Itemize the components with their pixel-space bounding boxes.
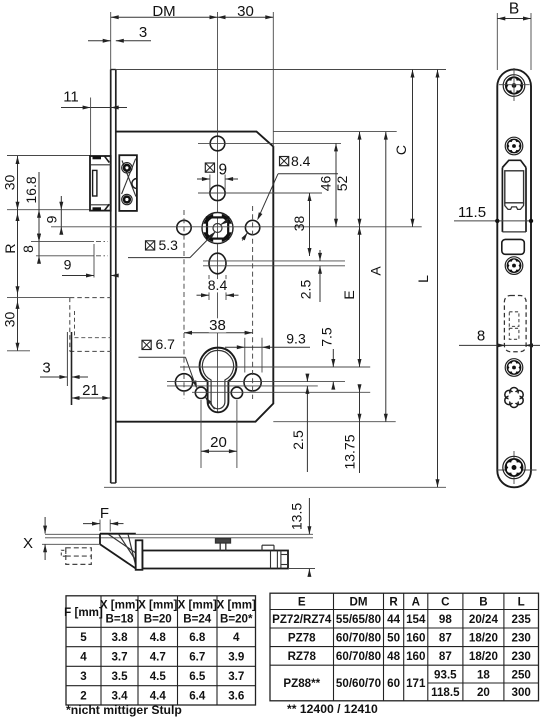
dimension 7.5 (332, 349, 334, 367)
svg-text:3.4: 3.4 (111, 690, 128, 703)
svg-text:6.8: 6.8 (189, 631, 206, 644)
svg-text:8: 8 (477, 328, 485, 345)
svg-text:L: L (518, 596, 525, 609)
svg-text:235: 235 (512, 613, 532, 626)
svg-text:A: A (412, 596, 421, 609)
svg-text:X [mm]: X [mm] (138, 599, 177, 612)
svg-text:L: L (415, 275, 431, 283)
small hole 6.7 right (231, 387, 242, 398)
dimension B (496, 13, 498, 70)
svg-text:3.5: 3.5 (111, 670, 128, 683)
svg-text:*nicht mittiger Stulp: *nicht mittiger Stulp (66, 703, 182, 717)
left dimension 9 (latch bottom to follower axis) (60, 196, 62, 235)
svg-text:5.3: 5.3 (159, 237, 179, 253)
dimension 3 faceplate thickness top (88, 40, 111, 42)
follower spindle T on case (216, 539, 231, 543)
svg-text:6.4: 6.4 (189, 690, 206, 703)
svg-text:E: E (341, 290, 357, 299)
latch bolt top bevel bump (502, 160, 526, 167)
dimension 13.75 (359, 386, 361, 392)
bottom screw torx (503, 456, 525, 478)
dimension 8.4 oval width (208, 275, 210, 300)
upper hole 9mm (210, 185, 225, 200)
case bottom extension for 13.5 (288, 568, 315, 570)
left dimension 8 (38, 242, 40, 263)
svg-text:B: B (509, 1, 519, 18)
svg-text:11.5: 11.5 (458, 204, 486, 221)
svg-text:171: 171 (406, 677, 426, 690)
centerline of 6.7 holes y=392.3 (192, 391, 370, 393)
dimension A (385, 132, 387, 422)
dimension C (412, 70, 414, 227)
extension line y=350.8 (7, 350, 30, 352)
svg-text:R: R (389, 596, 398, 609)
svg-text:3.7: 3.7 (111, 651, 127, 664)
svg-text:8.4: 8.4 (291, 153, 311, 169)
svg-text:87: 87 (439, 650, 452, 663)
label square-9 with dimension for upper hole (205, 163, 214, 172)
svg-text:F [mm]: F [mm] (64, 606, 103, 619)
extension line x=273.3 from 30-dim to case corner (272, 12, 274, 147)
small hole 6.7 left (195, 387, 206, 398)
lock case box (top view) (142, 551, 288, 569)
follower square 9mm (207, 217, 228, 238)
svg-text:4.7: 4.7 (150, 651, 166, 664)
vertical centerline through follower and cylinder (217, 12, 219, 412)
right view faceplate outline (stadium) (497, 69, 531, 487)
star-shaped hole outline (510, 388, 518, 396)
dimension 46 (335, 143, 337, 226)
second screw torx (505, 137, 523, 155)
svg-text:87: 87 (439, 632, 452, 645)
middle screw torx (505, 257, 523, 275)
svg-text:18/20: 18/20 (469, 632, 498, 645)
svg-text:13.5: 13.5 (289, 503, 305, 530)
svg-text:9: 9 (64, 257, 72, 273)
svg-text:C: C (441, 596, 450, 609)
side hole upper-left 8.4 (177, 220, 191, 234)
svg-text:B=20*: B=20* (220, 613, 253, 626)
dimension 9.3 diameter of lower side holes (225, 346, 310, 348)
top hole of lock case (210, 136, 225, 151)
svg-text:3.9: 3.9 (228, 651, 245, 664)
svg-text:20/24: 20/24 (469, 613, 499, 626)
svg-text:6.5: 6.5 (189, 670, 206, 683)
cylinder hole PZ profile outer (200, 348, 237, 413)
left table F/X values (66, 596, 256, 705)
centerline through upper hole (198, 192, 322, 194)
svg-text:21: 21 (82, 382, 99, 399)
svg-text:3: 3 (42, 360, 50, 377)
svg-text:20: 20 (477, 686, 490, 699)
latch opening in faceplate (long slot) (501, 168, 503, 232)
cylinder hole PZ profile inner (202, 350, 233, 408)
svg-text:93.5: 93.5 (434, 668, 457, 681)
bracket screw boss upper (122, 163, 132, 173)
follower (square spindle hub) ring (205, 215, 231, 241)
side hole lower-right 9.3 (244, 374, 261, 391)
svg-text:B: B (479, 596, 487, 609)
case bottom extension to A dimension (273, 421, 395, 423)
dimension X (44, 517, 46, 534)
svg-text:B=24: B=24 (183, 613, 212, 626)
svg-text:E: E (298, 596, 306, 609)
latch bolt head (Falle) (90, 156, 111, 211)
faceplate top extension line to L (116, 69, 446, 71)
svg-text:154: 154 (406, 613, 426, 626)
left dimension 16.8 (38, 172, 40, 242)
svg-text:3.8: 3.8 (111, 631, 128, 644)
svg-text:18: 18 (477, 668, 490, 681)
label square-5.3 with leader to follower center (146, 241, 155, 250)
faceplate (Stulp) front edge, 3mm thick (110, 70, 112, 484)
reference line pair 2.5 at lower side holes (167, 381, 345, 383)
faceplate bar cross-section (136, 540, 143, 570)
svg-text:18/20: 18/20 (469, 650, 498, 663)
dashed deadbolt thrown (top view) (66, 548, 92, 565)
svg-text:2.5: 2.5 (290, 430, 306, 450)
lock case outline with chamfered right corners (116, 132, 273, 422)
svg-text:B=20: B=20 (144, 613, 172, 626)
svg-text:3.7: 3.7 (228, 670, 244, 683)
svg-text:48: 48 (387, 650, 400, 663)
svg-text:9: 9 (218, 162, 227, 179)
extension line x=94 for 9-dim (93, 244, 95, 278)
dimension 30 top (218, 16, 274, 18)
svg-text:60: 60 (387, 677, 400, 690)
latch guide bracket inside case (119, 155, 137, 211)
extension line latch top y=155.5 (7, 155, 90, 157)
dimension L (437, 70, 439, 488)
lower oval hole 8.4 (209, 253, 226, 274)
dimension 38 vertical (309, 193, 311, 256)
dimension 20 between 6.7 holes (200, 400, 202, 468)
svg-text:4: 4 (80, 651, 87, 664)
small dashed slots (509, 312, 519, 327)
third screw torx (505, 359, 523, 377)
side hole upper-right 8.4 (245, 220, 259, 234)
svg-text:50/60/70: 50/60/70 (336, 677, 381, 690)
follower center hole 5.3 (213, 224, 222, 233)
follower centerline extension (51, 226, 422, 228)
latch bolt beveled bottom (505, 203, 524, 210)
cylinder housing bump on case top (261, 545, 263, 550)
svg-text:X [mm]: X [mm] (217, 599, 256, 612)
svg-text:13.75: 13.75 (342, 434, 358, 469)
latch bolt bevel wedge (top view) (100, 533, 136, 535)
hidden feature centerline y=255.8 (36, 255, 94, 257)
svg-text:6.7: 6.7 (189, 651, 205, 664)
svg-text:30: 30 (2, 312, 18, 328)
section reference line pair (45, 533, 313, 535)
dimension 9 horizontal (aux pin to faceplate) (62, 275, 94, 277)
svg-text:DM: DM (349, 596, 367, 609)
left dimension R (17, 210, 19, 298)
top screw torx (503, 75, 525, 97)
dimension F (99, 520, 101, 532)
case right end details (270, 551, 272, 569)
dimension E (359, 227, 361, 367)
label square-6.7 with leader to small holes (142, 340, 151, 349)
left dimension 30 upper (latch height) (17, 156, 19, 210)
dimension 11 latch protrusion (61, 107, 127, 109)
dimension 2.5 upper (319, 250, 321, 261)
svg-text:A: A (368, 266, 384, 276)
svg-text:3.6: 3.6 (228, 690, 245, 703)
svg-text:X: X (23, 535, 33, 552)
svg-text:46: 46 (318, 176, 334, 192)
svg-text:PZ78: PZ78 (288, 632, 316, 645)
svg-text:38: 38 (209, 317, 226, 334)
svg-text:C: C (393, 145, 409, 155)
svg-text:4.4: 4.4 (150, 690, 167, 703)
svg-text:30: 30 (2, 175, 18, 191)
side hole lower-left 9.3 (175, 374, 192, 391)
dimension 8 right view (459, 344, 540, 346)
svg-text:9.3: 9.3 (286, 331, 306, 347)
svg-text:8.4: 8.4 (208, 277, 228, 293)
reference line pair 2.5 at oval (203, 260, 345, 262)
deadbolt slot rounded rect (502, 239, 525, 254)
dashed deadbolt thrown position (7, 297, 70, 299)
dimension DM (backset) top (111, 16, 218, 18)
svg-text:4.8: 4.8 (150, 631, 167, 644)
latch bolt body inner rect (505, 171, 524, 203)
svg-text:3: 3 (139, 24, 147, 41)
svg-text:** 12400 / 12410: ** 12400 / 12410 (287, 702, 378, 716)
svg-text:20: 20 (210, 434, 227, 451)
svg-text:RZ78: RZ78 (288, 650, 317, 663)
svg-text:60/70/80: 60/70/80 (336, 632, 381, 645)
dashed cylinder cutout (504, 296, 526, 352)
deadbolt face lines (66, 332, 68, 386)
svg-text:2.5: 2.5 (298, 280, 314, 300)
svg-text:PZ72/RZ74: PZ72/RZ74 (272, 613, 332, 626)
svg-text:X [mm]: X [mm] (100, 599, 139, 612)
latch tip reference line (42, 543, 100, 545)
svg-text:DM: DM (152, 3, 175, 20)
svg-text:PZ88**: PZ88** (283, 677, 320, 690)
svg-text:B=18: B=18 (105, 613, 134, 626)
dimension 38 horizontal between side holes (184, 332, 253, 334)
svg-text:7.5: 7.5 (319, 327, 335, 347)
svg-text:250: 250 (512, 668, 531, 681)
svg-text:230: 230 (512, 632, 531, 645)
dimension 11.5 with line across plate (454, 220, 531, 222)
dashed centerline through right holes (252, 206, 254, 399)
svg-text:230: 230 (512, 650, 531, 663)
faceplate bottom extension line to L (104, 486, 446, 488)
dimension 2.5 lower (306, 375, 308, 382)
svg-text:16.8: 16.8 (23, 176, 39, 203)
svg-text:44: 44 (387, 613, 400, 626)
dimension 13.5 (308, 498, 310, 534)
svg-text:F: F (100, 505, 109, 522)
dimension 21 deadbolt throw (72, 397, 111, 399)
svg-text:160: 160 (406, 632, 425, 645)
svg-text:R: R (2, 243, 18, 253)
case top extension to A dimension (273, 131, 396, 133)
bottom screw centerline cross (497, 469, 536, 471)
svg-text:3: 3 (80, 670, 87, 683)
dimension 52 (359, 132, 361, 227)
bracket screw boss lower (122, 194, 132, 204)
svg-text:4: 4 (233, 631, 240, 644)
svg-text:30: 30 (237, 3, 254, 20)
top screw centerline cross (499, 84, 530, 86)
svg-text:11: 11 (63, 89, 79, 106)
svg-text:98: 98 (439, 613, 452, 626)
svg-text:2: 2 (80, 690, 86, 703)
svg-text:38: 38 (291, 216, 307, 232)
hidden feature centerline y=241.6 (31, 241, 94, 243)
svg-text:50: 50 (387, 632, 400, 645)
dimension 3 deadbolt step (40, 376, 67, 378)
svg-text:160: 160 (406, 650, 425, 663)
right table lock variants (270, 593, 539, 701)
svg-text:52: 52 (334, 176, 350, 192)
svg-text:X [mm]: X [mm] (178, 599, 217, 612)
svg-text:6.7: 6.7 (156, 336, 176, 352)
extension line x=111 to DM dimension (110, 12, 112, 70)
centerline through top hole (198, 142, 341, 144)
svg-text:4.5: 4.5 (150, 670, 167, 683)
svg-text:300: 300 (512, 686, 531, 699)
svg-text:5: 5 (80, 631, 87, 644)
svg-text:118.5: 118.5 (431, 686, 460, 699)
cylinder horizontal centerline y=367 (180, 366, 370, 368)
extension line latch bottom y=209.7 (7, 209, 91, 211)
dashed centerline through left holes (183, 210, 185, 399)
svg-text:9: 9 (44, 215, 60, 223)
svg-text:8: 8 (20, 245, 36, 253)
svg-text:60/70/80: 60/70/80 (336, 650, 381, 663)
label square-8.4 with diagonal leader to upper-right side hole (280, 157, 289, 166)
left dimension 30 lower (deadbolt height) (17, 298, 19, 351)
svg-text:55/65/80: 55/65/80 (336, 613, 381, 626)
